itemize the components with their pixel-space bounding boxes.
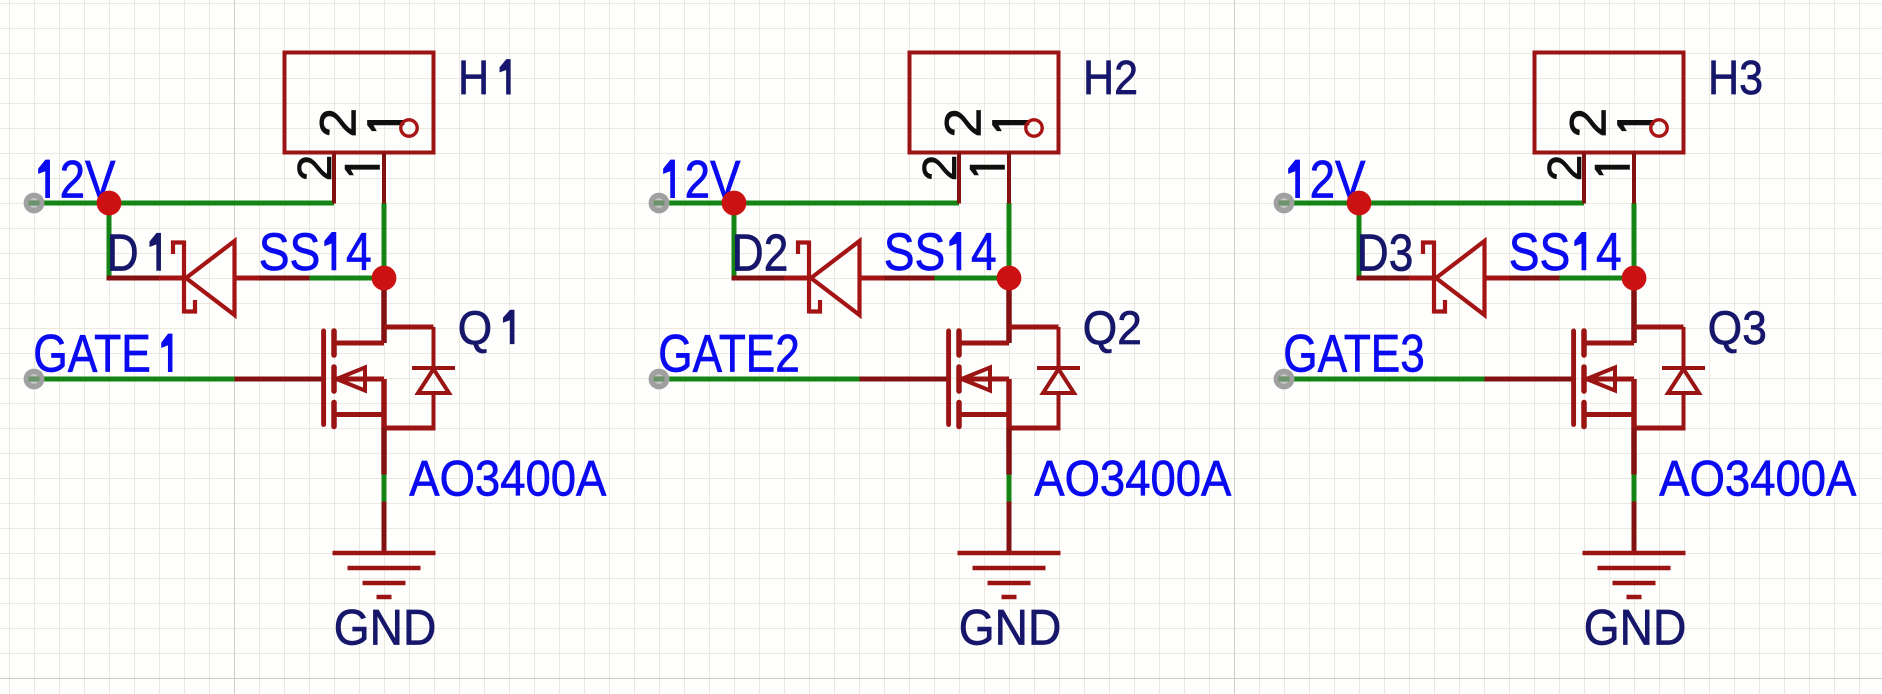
body diode triangle Q2 [1043, 369, 1074, 393]
canvas tile seam lines [235, 0, 1235, 694]
diode D3 triangle [1436, 241, 1485, 315]
svg-text:AO3400A: AO3400A [409, 449, 606, 506]
pin 1 dot circle inside H2 [1026, 120, 1042, 136]
transistor Q3 channel dash top [1581, 331, 1587, 355]
pin 1 dot circle inside H3 [1651, 120, 1667, 136]
net label 12V [39, 160, 50, 198]
ground bar 1 [1583, 551, 1686, 556]
transistor Q2 channel dash middle [956, 367, 962, 391]
transistor Q2 drain pin vertical [1006, 278, 1012, 343]
svg-text:H2: H2 [1083, 51, 1138, 105]
ground bar 1 [333, 551, 436, 556]
wire net 12V horizontal from port to H3 pin 2 [1291, 201, 1584, 206]
diode D1 schottky top hook [173, 243, 184, 255]
body diode vertical top Q2 [1057, 327, 1061, 368]
svg-text:4: 4 [346, 223, 372, 282]
pin 1 dot circle inside H1 [401, 120, 417, 136]
transistor Q3 gate pin lead [1485, 377, 1574, 382]
svg-text:GATE: GATE [33, 325, 151, 384]
wire from D1 anode to node [310, 276, 385, 281]
connector H3 body [1535, 53, 1684, 153]
transistor Q3 right vertical source/body [1631, 379, 1637, 428]
diode D2 schottky top hook [798, 243, 809, 255]
diode D2 cathode bar [807, 241, 811, 314]
transistor Q1 source connection [334, 412, 384, 417]
transistor Q1 body arrow triangle [337, 368, 366, 391]
connector H2 body [910, 53, 1059, 153]
pin name 1 inside H3 [1618, 120, 1655, 130]
diode D1 cathode lead wire [107, 276, 160, 281]
transistor Q3 bottom corner to body diode [1634, 426, 1684, 431]
svg-text:GATE3: GATE3 [1283, 325, 1425, 384]
net port circle 12V [24, 193, 45, 214]
transistor Q1 channel dash bottom [331, 403, 337, 427]
svg-text:H: H [458, 51, 489, 105]
connector H2 pin 2 [957, 153, 961, 204]
connector H2 pin 1 [1007, 153, 1011, 204]
body diode triangle Q3 [1668, 369, 1699, 393]
connector H1 pin 2 [332, 153, 336, 204]
transistor Q3 top corner to body diode [1634, 325, 1684, 330]
svg-text:SS: SS [1509, 223, 1571, 282]
pin name 1 inside H2 [993, 120, 1030, 130]
transistor Q1 gate pin lead [235, 377, 324, 382]
ground bar 2 [1598, 566, 1671, 571]
body diode cathode bar Q2 [1037, 366, 1080, 370]
svg-text:2: 2 [309, 108, 366, 138]
svg-text:SS: SS [259, 223, 321, 282]
transistor Q2 gate pin lead [860, 377, 949, 382]
transistor Q2 channel dash top [956, 331, 962, 355]
body diode vertical bottom Q3 [1682, 393, 1686, 431]
junction dot 12V node [97, 191, 122, 216]
pin number 1 outside H3 [1595, 165, 1629, 175]
diode D2 anode pin [860, 276, 885, 281]
transistor Q2 source pin down [1006, 428, 1012, 475]
diode D2 cathode lead wire [732, 276, 785, 281]
body diode cathode bar Q1 [412, 366, 455, 370]
body diode triangle Q1 [418, 369, 449, 393]
ground bar 4 [377, 595, 392, 600]
diode D2 anode lead wire [885, 276, 935, 281]
transistor Q1 source pin down [381, 428, 387, 475]
ground bar 2 [973, 566, 1046, 571]
diode D3 schottky bottom hook [1434, 300, 1445, 312]
junction dot D2 anode node [997, 266, 1022, 291]
svg-text:AO3400A: AO3400A [1659, 449, 1856, 506]
diode D3 cathode bar [1432, 241, 1436, 314]
wire net 12V vertical H2 pin1 down to node [1007, 203, 1012, 278]
ground GND lead [1007, 502, 1012, 554]
net port circle GATE2 [649, 369, 670, 390]
diode D3 cathode lead wire [1357, 276, 1410, 281]
junction dot 12V node [722, 191, 747, 216]
svg-text:GND: GND [1584, 600, 1687, 656]
transistor Q3 gate bar [1571, 331, 1576, 425]
transistor Q1 body arrow tail [337, 377, 385, 382]
wire net 12V horizontal from port to H2 pin 2 [666, 201, 959, 206]
diode D3 schottky top hook [1423, 243, 1434, 255]
net port circle 12V [649, 193, 670, 214]
diode D1 schottky bottom hook [184, 300, 195, 312]
wire segment source to GND [382, 475, 387, 502]
diode D2 cathode pin [784, 276, 809, 281]
connector H3 pin 1 [1632, 153, 1636, 204]
ground bar 4 [1627, 595, 1642, 600]
ground bar 3 [988, 581, 1031, 586]
ground bar 3 [1613, 581, 1656, 586]
transistor Q1 channel dash top [331, 331, 337, 355]
transistor Q1 channel dash middle [331, 367, 337, 391]
wire net 12V horizontal from port to H1 pin 2 [41, 201, 334, 206]
body diode vertical bottom Q1 [432, 393, 436, 431]
svg-text:2: 2 [289, 155, 342, 182]
pin number 1 outside H2 [970, 165, 1004, 175]
transistor Q3 body arrow triangle [1587, 368, 1616, 391]
transistor Q2 channel dash bottom [956, 403, 962, 427]
diode D3 anode lead wire [1510, 276, 1560, 281]
wire net 12V vertical from junction to D2 cathode lead [732, 201, 737, 279]
transistor Q1 bottom corner to body diode [384, 426, 434, 431]
svg-text:AO3400A: AO3400A [1034, 449, 1231, 506]
svg-text:H3: H3 [1708, 51, 1763, 105]
diode D1 anode pin [235, 276, 260, 281]
diode D1 triangle [186, 241, 235, 315]
junction dot D1 anode node [372, 266, 397, 291]
svg-text:2: 2 [1559, 108, 1616, 138]
connector H1 pin 1 [382, 153, 386, 204]
svg-text:4: 4 [971, 223, 997, 282]
svg-text:Q2: Q2 [1083, 301, 1142, 354]
svg-text:Q3: Q3 [1708, 301, 1767, 354]
net port circle GATE1 [24, 369, 45, 390]
transistor Q1 gate bar [321, 331, 326, 425]
pin number 1 outside H1 [345, 165, 379, 175]
ground GND lead [382, 502, 387, 554]
transistor Q2 gate bar [946, 331, 951, 425]
wire net GATE2 horizontal from port to Q2 gate pin [666, 377, 860, 382]
connector H3 pin 2 [1582, 153, 1586, 204]
transistor Q3 drain connection [1584, 341, 1634, 346]
ground bar 3 [363, 581, 406, 586]
transistor Q2 source connection [959, 412, 1009, 417]
svg-text:D: D [107, 224, 139, 282]
wire net 12V vertical from junction to D3 cathode lead [1357, 201, 1362, 279]
svg-text:2: 2 [1539, 155, 1592, 182]
ground GND lead [1632, 502, 1637, 554]
wire segment source to GND [1632, 475, 1637, 502]
transistor Q2 right vertical source/body [1006, 379, 1012, 428]
wire from D2 anode to node [935, 276, 1010, 281]
transistor Q3 source connection [1584, 412, 1634, 417]
svg-text:2: 2 [914, 155, 967, 182]
svg-text:4: 4 [1596, 223, 1622, 282]
diode D1 cathode pin [159, 276, 184, 281]
net label 12V [1289, 160, 1300, 198]
pin name 1 inside H1 [368, 120, 405, 130]
junction dot 12V node [1347, 191, 1372, 216]
transistor Q1 drain pin vertical [381, 278, 387, 343]
ground bar 2 [348, 566, 421, 571]
svg-text:D2: D2 [732, 224, 789, 282]
junction dot D3 anode node [1622, 266, 1647, 291]
net port circle 12V [1274, 193, 1295, 214]
body diode vertical top Q3 [1682, 327, 1686, 368]
transistor Q3 body arrow tail [1587, 377, 1635, 382]
transistor Q3 drain pin vertical [1631, 278, 1637, 343]
transistor Q1 right vertical source/body [381, 379, 387, 428]
transistor Q2 body arrow tail [962, 377, 1010, 382]
diode D1 cathode bar [182, 241, 186, 314]
transistor Q3 channel dash bottom [1581, 403, 1587, 427]
wire net GATE1 horizontal from port to Q1 gate pin [41, 377, 235, 382]
net label 12V [664, 160, 675, 198]
wire from D3 anode to node [1560, 276, 1635, 281]
transistor Q2 drain connection [959, 341, 1009, 346]
transistor Q2 top corner to body diode [1009, 325, 1059, 330]
diode D2 schottky bottom hook [809, 300, 820, 312]
transistor Q3 channel dash middle [1581, 367, 1587, 391]
ground bar 4 [1002, 595, 1017, 600]
wire net GATE3 horizontal from port to Q3 gate pin [1291, 377, 1485, 382]
wire net 12V vertical H3 pin1 down to node [1632, 203, 1637, 278]
connector H1 body [285, 53, 434, 153]
wire net 12V vertical from junction to D1 cathode lead [107, 201, 112, 279]
svg-text:2: 2 [934, 108, 991, 138]
wire net 12V vertical H1 pin1 down to node [382, 203, 387, 278]
diode D1 anode lead wire [260, 276, 310, 281]
ground bar 1 [958, 551, 1061, 556]
body diode cathode bar Q3 [1662, 366, 1705, 370]
wire segment source to GND [1007, 475, 1012, 502]
svg-text:GATE2: GATE2 [658, 325, 800, 384]
transistor Q1 top corner to body diode [384, 325, 434, 330]
transistor Q2 bottom corner to body diode [1009, 426, 1059, 431]
svg-text:GND: GND [959, 600, 1062, 656]
body diode vertical top Q1 [432, 327, 436, 368]
diode D3 cathode pin [1409, 276, 1434, 281]
body diode vertical bottom Q2 [1057, 393, 1061, 431]
svg-text:D3: D3 [1357, 224, 1414, 282]
diode D3 anode pin [1485, 276, 1510, 281]
transistor Q1 drain connection [334, 341, 384, 346]
svg-text:Q: Q [458, 301, 492, 354]
transistor Q3 source pin down [1631, 428, 1637, 475]
net port circle GATE3 [1274, 369, 1295, 390]
diode D2 triangle [811, 241, 860, 315]
svg-text:GND: GND [334, 600, 437, 656]
svg-text:SS: SS [884, 223, 946, 282]
transistor Q2 body arrow triangle [962, 368, 991, 391]
